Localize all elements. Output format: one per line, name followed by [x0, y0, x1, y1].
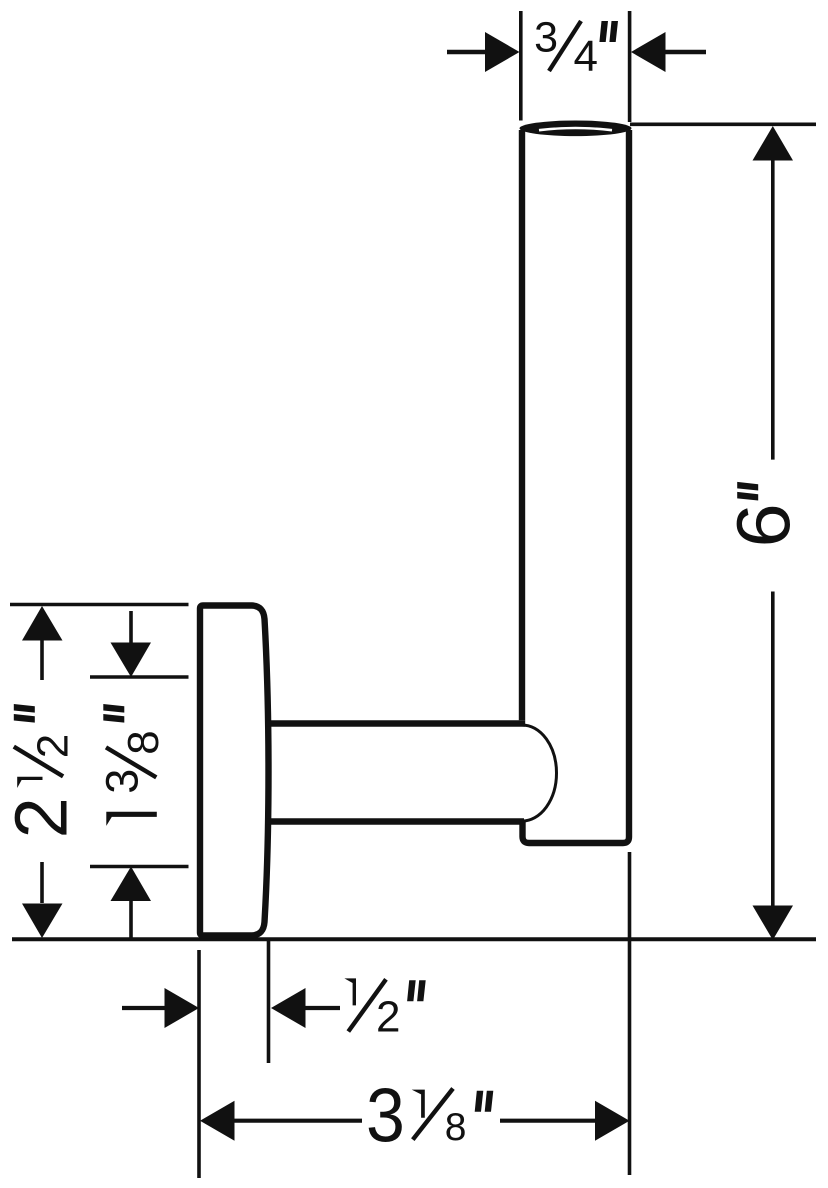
svg-text:4: 4: [574, 32, 598, 81]
label 3 1/8 (bottom): [366, 1074, 493, 1158]
wire: bottom extension line at tube right (3 1/8 dim): [628, 852, 632, 1175]
fraction slash: [14, 747, 63, 777]
arm top line: [266, 720, 525, 726]
numeral 1: [106, 812, 157, 826]
label 1 3/8 (left, rotated): [97, 704, 169, 826]
fraction slash: [413, 1089, 453, 1140]
label 2 1/2 (left, rotated): [0, 704, 82, 838]
svg-text:2: 2: [28, 734, 77, 758]
wire: left extension line top (2 1/2 dim): [10, 603, 189, 606]
prime mark: [407, 980, 426, 1001]
fraction slash: [549, 21, 581, 71]
svg-text:2: 2: [0, 797, 82, 838]
dimension 3/4 left arrow: [447, 32, 520, 72]
prime mark: [475, 1091, 494, 1112]
wire: top horizontal extension (6in dim, top): [630, 123, 816, 127]
wire: bottom extension line at plate left (1/2 + 3 1/8 dims): [197, 950, 201, 1178]
dimension 1/2 arrows: [122, 988, 340, 1028]
dimension 2 1/2 arrows (left, x=42): [22, 606, 63, 938]
numeral 1 (numerator): [344, 978, 356, 1005]
numeral 1 (numerator): [17, 777, 42, 788]
prime mark: [103, 704, 124, 723]
wire: left extension line (1 3/8 dim, upper): [90, 675, 189, 678]
svg-text:3: 3: [366, 1074, 405, 1158]
svg-text:2: 2: [376, 992, 400, 1041]
arm rounded end (dome) inside tube: [522, 725, 557, 821]
wire: top-right extension line (3/4 dim, right): [628, 11, 632, 122]
prime mark: [737, 482, 758, 501]
prime mark: [599, 21, 618, 42]
fraction slash: [106, 747, 156, 777]
wire: top-left extension line (3/4 dim, left): [519, 11, 523, 121]
svg-text:8: 8: [445, 1106, 467, 1149]
prime mark: [14, 704, 35, 723]
dimension 6in line with arrows: [753, 126, 794, 940]
label 6 inch (right, rotated): [723, 482, 806, 548]
dimension 3/4 right arrow: [631, 32, 706, 72]
label 1/2 (bottom): [344, 978, 425, 1041]
svg-text:6: 6: [723, 503, 806, 547]
fraction slash: [348, 979, 386, 1031]
svg-text:3: 3: [534, 14, 558, 62]
tube top cap (ellipse): [520, 121, 632, 137]
numeral 1 (numerator): [412, 1090, 425, 1118]
dimension 1 3/8 arrows (x=131): [111, 611, 152, 938]
tube left edge: [519, 130, 525, 720]
dimension 3 1/8 line with arrows (y=1120.7): [200, 1101, 630, 1141]
wire: bottom extension line at plate right (1/2 dim): [267, 941, 271, 1063]
wire: bottom long datum line: [12, 937, 816, 941]
wall plate outline: [200, 606, 269, 936]
arm bottom line: [266, 818, 524, 824]
label 3/4 (top): [534, 14, 618, 82]
tube right edge and bottom: [523, 130, 630, 843]
svg-text:3: 3: [97, 769, 148, 794]
wire: left extension line (1 3/8 dim, lower): [90, 865, 189, 868]
svg-text:8: 8: [119, 730, 168, 754]
